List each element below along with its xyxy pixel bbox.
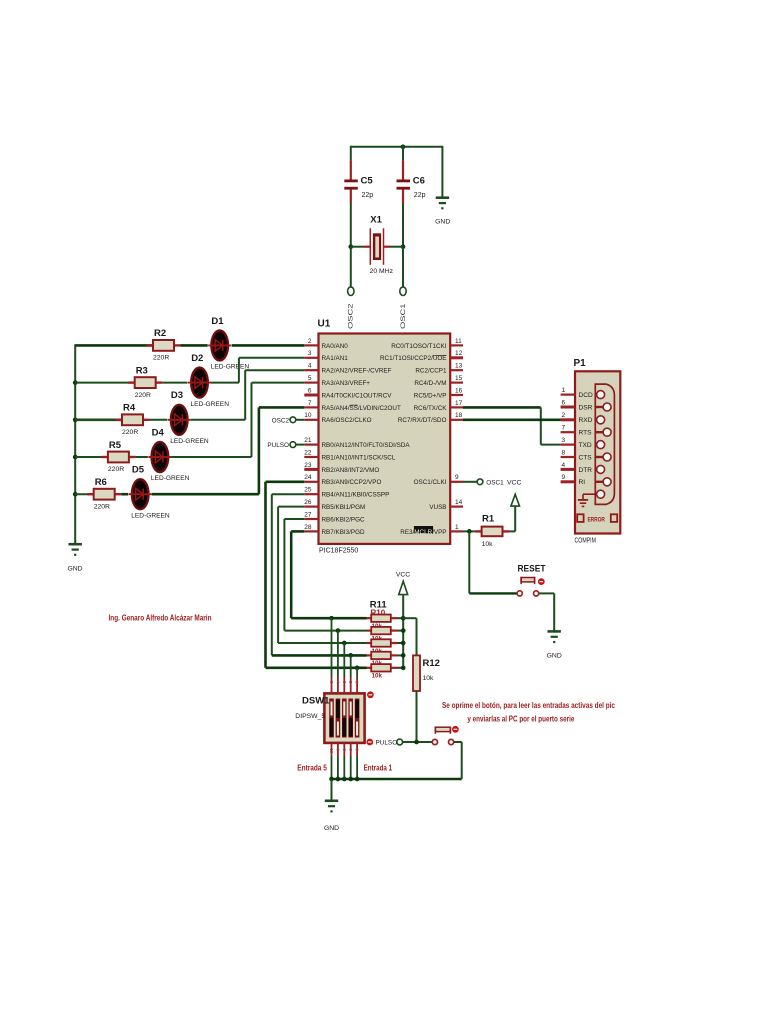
svg-text:22p: 22p (414, 192, 426, 199)
indicator DSW state (368, 692, 374, 698)
wire to VCC bus (398, 642, 404, 644)
svg-text:10: 10 (304, 412, 312, 419)
junction bottom rail (342, 777, 347, 782)
junction left rail (73, 417, 78, 422)
pin 1 stub (right) (450, 524, 463, 532)
P1 pin 9 RI (561, 474, 586, 486)
note author (109, 613, 212, 623)
junction bottom rail / ground drop (329, 777, 334, 782)
svg-text:CTS: CTS (579, 454, 593, 461)
pin 22 label (322, 454, 396, 461)
wire rail to R4 (75, 418, 122, 421)
junction row/column (329, 616, 334, 621)
svg-text:2: 2 (562, 412, 566, 419)
svg-text:DSW1: DSW1 (302, 695, 330, 706)
ground top-right (435, 146, 450, 226)
P1 internal ground (578, 494, 595, 506)
svg-text:RC2/CCP1: RC2/CCP1 (415, 368, 447, 375)
wire DSW column 4 bottom (348, 743, 353, 779)
svg-text:P1: P1 (574, 358, 587, 369)
wire rail to R6 (75, 493, 94, 495)
svg-text:RA3/AN3/VREF+: RA3/AN3/VREF+ (322, 380, 371, 387)
pin 9 label (414, 479, 447, 486)
pin 15 label (414, 380, 446, 387)
svg-text:Entrada 5: Entrada 5 (297, 763, 327, 773)
junction pin1/reset (467, 529, 472, 534)
terminal OSC1 (chip right) (463, 479, 504, 487)
pin 28 label (322, 529, 365, 536)
pin 15 stub (right) (450, 375, 463, 383)
svg-text:13: 13 (455, 363, 463, 370)
svg-text:220R: 220R (94, 503, 110, 510)
indicator PULSO state (367, 739, 397, 747)
wire D5 to pin (152, 407, 305, 494)
svg-text:OSC2: OSC2 (272, 417, 290, 424)
pin 25 label (322, 492, 390, 499)
P1 DB9 connector shape (595, 384, 614, 504)
crystal X1 20 MHz (351, 215, 403, 276)
wire to VCC bus (398, 667, 404, 669)
pin 16 label (414, 392, 447, 399)
LED D5 LED-GREEN (129, 465, 170, 520)
svg-text:16: 16 (455, 387, 463, 394)
resistor R3 220R (128, 365, 162, 398)
svg-text:21: 21 (304, 437, 312, 444)
svg-text:22: 22 (304, 449, 312, 456)
svg-text:U1: U1 (318, 319, 331, 330)
svg-text:C5: C5 (361, 176, 374, 187)
terminal PULSO (bottom) (397, 739, 403, 745)
pin 21 stub (left) (304, 437, 318, 445)
note Entrada 1 (364, 763, 393, 773)
svg-text:RB7/KBI3/PGD: RB7/KBI3/PGD (322, 529, 365, 536)
pin 27 stub (left) (304, 511, 318, 519)
junction left rail (73, 492, 78, 497)
resistor network R11 label (370, 600, 388, 618)
svg-text:GND: GND (435, 219, 450, 226)
pin 7 label (322, 405, 401, 412)
resistor R11-5 10k (367, 664, 398, 680)
svg-text:Se oprime el botón, para leer: Se oprime el botón, para leer las entrad… (442, 701, 615, 710)
svg-text:PULSO: PULSO (267, 442, 289, 449)
svg-text:1: 1 (562, 387, 566, 394)
svg-text:9: 9 (455, 474, 459, 481)
pin 11 label (391, 343, 447, 350)
pin 17 label (414, 405, 448, 412)
svg-text:27: 27 (304, 511, 312, 518)
wire bottom rail (332, 778, 462, 781)
svg-text:RA2/AN2/VREF-/CVREF: RA2/AN2/VREF-/CVREF (322, 368, 392, 375)
pin 11 stub (right) (450, 338, 463, 346)
wire left supply rail (74, 344, 76, 543)
wire to VCC bus (398, 617, 404, 619)
P1 pin 6 DSR (561, 399, 593, 411)
P1 pin 8 CTS (561, 449, 593, 461)
svg-text:10k: 10k (423, 675, 435, 682)
svg-text:OSC1: OSC1 (486, 479, 504, 486)
wire PULSO to button (403, 741, 433, 743)
pin 2 stub (left) (304, 338, 318, 346)
svg-text:RESET: RESET (518, 563, 546, 574)
svg-text:RA1/AN1: RA1/AN1 (322, 355, 349, 362)
svg-text:220R: 220R (122, 429, 138, 436)
pin 2 label (322, 343, 349, 350)
svg-text:RC6/TX/CK: RC6/TX/CK (414, 405, 448, 412)
svg-text:220R: 220R (108, 466, 124, 473)
LED D2 LED-GREEN (188, 353, 229, 408)
svg-text:OSC1/CLKI: OSC1/CLKI (414, 479, 447, 486)
wire pin 25 to R11 network row (272, 494, 367, 655)
pin 26 label (322, 504, 366, 511)
svg-text:PULSO: PULSO (376, 740, 398, 747)
svg-text:RC5/D+/VP: RC5/D+/VP (414, 392, 447, 399)
pin 6 stub (left) (304, 387, 318, 395)
pin 14 stub (right) (450, 499, 463, 507)
svg-text:RB6/KBI2/PGC: RB6/KBI2/PGC (322, 516, 365, 523)
svg-text:DSR: DSR (579, 404, 593, 411)
svg-text:R3: R3 (136, 365, 148, 376)
svg-text:D2: D2 (191, 353, 203, 364)
note Entrada 5 (297, 763, 327, 773)
svg-text:7: 7 (308, 400, 312, 407)
pin 24 label (322, 479, 382, 486)
pin 5 stub (left) (304, 375, 318, 383)
wire D4 to pin (171, 383, 304, 457)
power VCC (R1) (507, 479, 521, 531)
wire DSW column 4 top (348, 655, 353, 693)
push-button (PULSO) (432, 726, 458, 744)
wire rail to R5 (75, 456, 108, 458)
wire D3 to pin (191, 370, 305, 420)
wire button to bottom rail (454, 742, 462, 779)
svg-text:GND: GND (67, 566, 82, 573)
note button description (442, 701, 615, 724)
wire pin 18 RX to P1 RXD (463, 418, 561, 421)
svg-text:RA6/OSC2/CLKO: RA6/OSC2/CLKO (322, 417, 372, 424)
svg-text:OSC1: OSC1 (400, 303, 407, 329)
wire pin 26 to R11 network row (278, 507, 366, 643)
svg-text:DTR: DTR (579, 467, 593, 474)
resistor R12 10k (403, 618, 440, 742)
wire R6 to D5 (121, 493, 128, 496)
resistor R2 220R (147, 328, 181, 361)
P1 pin 4 DTR (561, 462, 593, 474)
svg-text:RI: RI (579, 479, 586, 486)
pin 3 label (322, 355, 349, 362)
pin 18 label (398, 417, 447, 424)
pin 26 stub (left) (304, 499, 318, 507)
resistor R4 220R (116, 403, 150, 436)
svg-text:LED-GREEN: LED-GREEN (170, 438, 209, 445)
svg-text:RC0/T1OSO/T1CKI: RC0/T1OSO/T1CKI (391, 343, 447, 350)
svg-text:RB4/AN11/KBI0/CSSPP: RB4/AN11/KBI0/CSSPP (322, 492, 390, 499)
svg-text:26: 26 (304, 499, 312, 506)
terminal OSC1 (top) (400, 287, 407, 329)
capacitor C5 (344, 146, 373, 248)
svg-text:ERROR: ERROR (587, 516, 605, 523)
svg-text:R5: R5 (109, 440, 122, 451)
svg-text:LED-GREEN: LED-GREEN (131, 512, 170, 519)
wire rail to R2 (75, 344, 153, 347)
svg-text:R12: R12 (423, 658, 440, 669)
svg-text:D4: D4 (152, 427, 165, 438)
svg-text:LED-GREEN: LED-GREEN (211, 364, 250, 371)
svg-text:7: 7 (562, 425, 566, 432)
pin 17 stub (right) (450, 400, 463, 408)
svg-text:RC7/RX/DT/SDO: RC7/RX/DT/SDO (398, 417, 447, 424)
wire DSW column 3 bottom (342, 743, 347, 779)
pin 16 stub (right) (450, 387, 463, 395)
junction VCC bus (401, 641, 406, 646)
pin 9 stub (right) (450, 474, 463, 482)
op-amp U1 chip body PIC18F2550 (318, 319, 451, 555)
junction bottom rail (348, 777, 353, 782)
junction VCC bus (401, 665, 406, 670)
svg-text:5: 5 (308, 375, 312, 382)
svg-text:10k: 10k (372, 673, 383, 680)
pin 1 label RE3/MCLR/VPP (400, 526, 446, 536)
svg-text:RC1/T1OSI/CCP2/UOE: RC1/T1OSI/CCP2/UOE (380, 355, 447, 362)
svg-text:R6: R6 (95, 477, 107, 488)
junction top rail / C6 (401, 144, 406, 149)
pin 27 label (322, 516, 365, 523)
wire pin 28 to R11 network row (291, 531, 366, 618)
svg-text:y enviarlas al PC por el puert: y enviarlas al PC por el puerto serie (467, 715, 574, 724)
svg-text:Ing. Genaro Alfredo Alcázar Ma: Ing. Genaro Alfredo Alcázar Marín (109, 613, 212, 623)
junction row/column (348, 653, 353, 658)
junction row/column (342, 641, 347, 646)
svg-text:10: 10 (329, 749, 334, 754)
wire D2 to pin (211, 358, 304, 383)
pin 3 stub (left) (304, 350, 318, 358)
svg-text:RA5/AN4/SS/LVDIN/C2OUT: RA5/AN4/SS/LVDIN/C2OUT (322, 405, 401, 412)
wire R1 to VCC (509, 530, 515, 532)
resistor R6 220R (87, 477, 121, 510)
svg-text:6: 6 (562, 399, 566, 406)
svg-text:VUSB: VUSB (429, 504, 446, 511)
svg-text:1: 1 (455, 524, 459, 531)
svg-text:17: 17 (455, 400, 463, 407)
pin 24 stub (left) (304, 474, 318, 482)
wire RESET to ground (539, 593, 555, 630)
resistor R11-2 10k (367, 627, 398, 643)
pin 12 label (380, 355, 447, 362)
pin 23 stub (left) (304, 462, 318, 470)
pin 22 stub (left) (304, 449, 318, 457)
svg-text:GND: GND (324, 825, 339, 832)
svg-text:DCD: DCD (579, 392, 594, 399)
svg-text:D5: D5 (132, 465, 145, 476)
svg-text:28: 28 (304, 524, 312, 531)
svg-text:D1: D1 (211, 316, 224, 327)
svg-text:3: 3 (308, 350, 312, 357)
wire VCC bus vertical (402, 595, 404, 668)
junction VCC bus (401, 653, 406, 658)
pin 7 stub (left) (304, 400, 318, 408)
resistor R11-3 10k (367, 639, 398, 655)
junction VCC bus (401, 628, 406, 633)
junction row/column (336, 628, 341, 633)
svg-text:9: 9 (562, 474, 566, 481)
junction left rail (73, 380, 78, 385)
wire DSW column 5 bottom (355, 743, 360, 779)
LED D4 LED-GREEN (148, 427, 189, 482)
svg-text:RC4/D-/VM: RC4/D-/VM (414, 380, 446, 387)
wire pin 17 TX to P1 TXD (463, 407, 561, 444)
svg-text:OSC2: OSC2 (348, 303, 355, 329)
svg-text:TXD: TXD (579, 442, 592, 449)
wire DSW column 5 top (355, 668, 360, 694)
svg-text:25: 25 (304, 487, 312, 494)
svg-text:R4: R4 (123, 403, 136, 414)
terminal OSC2 (chip) (272, 417, 305, 424)
wire R3 to D2 (162, 382, 187, 384)
svg-text:20 MHz: 20 MHz (370, 268, 394, 275)
svg-text:RB1/AN10/INT1/SCK/SCL: RB1/AN10/INT1/SCK/SCL (322, 454, 396, 461)
P1 pin 3 TXD (561, 437, 592, 449)
wire DSW column 3 top (342, 643, 347, 693)
pin 25 stub (left) (304, 487, 318, 495)
junction bottom rail (336, 777, 341, 782)
svg-text:23: 23 (304, 462, 312, 469)
svg-text:3: 3 (562, 437, 566, 444)
pin 5 label (322, 380, 371, 387)
pin 6 label (322, 392, 393, 399)
resistor R5 220R (101, 440, 135, 473)
svg-text:2: 2 (308, 338, 312, 345)
junction crystal right (401, 244, 406, 249)
svg-text:C6: C6 (413, 176, 425, 187)
switch DSW1 DIPSW_5 body (295, 693, 364, 743)
wire DSW column 2 bottom (335, 743, 340, 779)
svg-text:RB2/AN8/INT2/VMO: RB2/AN8/INT2/VMO (322, 467, 380, 474)
wire rail to R3 (75, 382, 135, 384)
svg-text:D3: D3 (171, 390, 183, 401)
LED D1 LED-GREEN (208, 316, 249, 371)
svg-text:22p: 22p (362, 192, 374, 199)
svg-text:15: 15 (455, 375, 463, 382)
wire D1 to pin 2 (232, 344, 305, 347)
svg-text:PIC18F2550: PIC18F2550 (319, 548, 358, 555)
wire to VCC bus (398, 630, 404, 632)
power VCC (R11) (396, 572, 410, 595)
junction R12 bottom (414, 740, 419, 745)
svg-text:VCC: VCC (396, 572, 410, 579)
svg-text:6: 6 (308, 387, 312, 394)
svg-text:RE3/MCLR/VPP: RE3/MCLR/VPP (400, 529, 446, 536)
push-button RESET (469, 563, 545, 596)
svg-text:X1: X1 (370, 215, 382, 226)
wire to VCC bus (398, 654, 404, 656)
pin 4 stub (left) (304, 363, 318, 371)
terminal PULSO (chip) (267, 442, 304, 449)
svg-text:RTS: RTS (579, 430, 593, 437)
svg-text:RXD: RXD (579, 417, 593, 424)
resistor R11-4 10k (367, 652, 398, 668)
ground RESET (547, 631, 562, 659)
svg-text:GND: GND (547, 653, 562, 660)
junction left rail (73, 455, 78, 460)
svg-text:Entrada 1: Entrada 1 (364, 763, 393, 773)
svg-text:18: 18 (455, 412, 463, 419)
terminal OSC2 (top) (348, 287, 355, 329)
resistor R1 10k (475, 513, 510, 548)
wire pin 1 to R1 (463, 530, 475, 532)
wire pin 24 to R11 network row (266, 482, 367, 668)
pin 13 stub (right) (450, 363, 463, 371)
junction crystal left (348, 244, 353, 249)
svg-text:220R: 220R (135, 392, 151, 399)
svg-text:8: 8 (562, 449, 566, 456)
svg-text:RB3/AN9/CCP2/VPO: RB3/AN9/CCP2/VPO (322, 479, 382, 486)
svg-text:220R: 220R (153, 355, 169, 362)
wire crystal right down to OSC1 terminal (402, 247, 404, 287)
connector P1 COMPIM body (574, 358, 621, 544)
wire R2 to D1 (181, 344, 208, 347)
junction row/column (355, 665, 360, 670)
pin 23 label (322, 467, 380, 474)
P1 pin 2 RXD (561, 412, 593, 424)
pin 13 label (415, 368, 447, 375)
svg-text:DIPSW_5: DIPSW_5 (295, 713, 325, 720)
wire DSW column 1 bottom (329, 743, 334, 779)
svg-text:VCC: VCC (507, 479, 521, 486)
svg-text:RB0/AN12/INT0/FLT0/SDI/SDA: RB0/AN12/INT0/FLT0/SDI/SDA (322, 442, 411, 449)
P1 ERROR indicators (577, 514, 617, 523)
pin 14 label (429, 504, 446, 511)
svg-text:RA4/T0CKI/C1OUT/RCV: RA4/T0CKI/C1OUT/RCV (322, 392, 393, 399)
ground DSW (324, 779, 339, 832)
svg-text:14: 14 (455, 499, 463, 506)
junction bottom rail (355, 777, 360, 782)
pin 28 stub (left) (304, 524, 318, 532)
pin 18 stub (right) (450, 412, 463, 420)
wire junction down to RESET (468, 531, 470, 593)
svg-text:4: 4 (562, 462, 566, 469)
svg-text:RA0/AN0: RA0/AN0 (322, 343, 349, 350)
resistor R11-1 10k (367, 615, 398, 631)
wire R4 to D3 (150, 419, 168, 421)
wire DSW column 2 top (335, 631, 340, 694)
svg-text:24: 24 (304, 474, 312, 481)
pin 21 label (322, 442, 411, 449)
wire DSW column 1 top (329, 618, 334, 693)
svg-text:12: 12 (455, 350, 463, 357)
P1 pin 7 RTS (561, 425, 593, 437)
svg-text:RB5/KBI1/PGM: RB5/KBI1/PGM (322, 504, 366, 511)
ground left rail (67, 544, 82, 572)
wire crystal left down to OSC2 terminal (350, 247, 352, 287)
svg-text:LED-GREEN: LED-GREEN (191, 401, 230, 408)
wire R5 to D4 (135, 456, 148, 458)
wire top rail (351, 146, 443, 148)
pin 4 label (322, 368, 392, 375)
pin 10 stub (left) (304, 412, 318, 420)
wire pin 27 to R11 network row (284, 519, 366, 631)
svg-text:11: 11 (455, 338, 462, 345)
P1 pin 1 DCD (561, 387, 593, 399)
svg-text:COMPIM: COMPIM (575, 537, 597, 544)
LED D3 LED-GREEN (168, 390, 209, 445)
svg-text:10k: 10k (482, 541, 494, 548)
capacitor C6 (397, 146, 426, 248)
pin 12 stub (right) (450, 350, 463, 358)
svg-text:LED-GREEN: LED-GREEN (151, 475, 190, 482)
svg-text:4: 4 (308, 363, 312, 370)
svg-text:R2: R2 (154, 328, 166, 339)
svg-text:R1: R1 (482, 513, 495, 524)
pin 10 label (322, 417, 372, 424)
